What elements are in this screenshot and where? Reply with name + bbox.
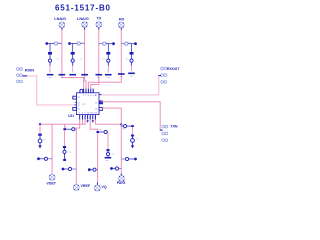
connector VQ stem bbox=[96, 183, 98, 186]
bead FB1 column bbox=[38, 124, 46, 148]
resistor R3 row bbox=[121, 125, 134, 131]
capacitor C7 tap bbox=[62, 167, 77, 170]
connector J1 circle bbox=[59, 22, 65, 30]
wire net TX bbox=[91, 29, 99, 88]
wire net RXOUT bbox=[102, 76, 161, 95]
svg-text:PA/G: PA/G bbox=[117, 181, 126, 185]
IC U1 body bbox=[76, 93, 99, 115]
connector VDET circle bbox=[49, 174, 55, 180]
capacitor C4 shunt bbox=[125, 44, 133, 72]
wire net LNA2 bbox=[85, 29, 86, 88]
junction dot VDET bbox=[39, 123, 41, 125]
svg-text:VDET: VDET bbox=[46, 181, 56, 185]
net bar GND b3a bbox=[96, 74, 103, 79]
connector J2 circle bbox=[82, 22, 88, 30]
wire net TXOUT bbox=[102, 108, 122, 126]
net bar GND b3b bbox=[105, 74, 112, 79]
IC U1 top pins bbox=[84, 89, 94, 93]
net bar GND b2a bbox=[69, 74, 76, 79]
wire net VREF bbox=[76, 120, 79, 185]
svg-text:LNA/G: LNA/G bbox=[54, 17, 66, 21]
connector VREF circle bbox=[73, 185, 79, 191]
svg-text:TXN: TXN bbox=[170, 125, 178, 129]
inductor L4 bbox=[121, 42, 137, 45]
wire net VDET drop bbox=[51, 124, 53, 174]
connector J4 circle bbox=[119, 22, 125, 30]
net bar GND b4b bbox=[128, 73, 135, 78]
svg-text:U1: U1 bbox=[82, 102, 86, 106]
wire net RXIN bbox=[23, 76, 75, 105]
wire net RX bbox=[88, 30, 121, 89]
wire net LNA1 bbox=[62, 30, 84, 89]
wire net TXN bbox=[102, 102, 163, 130]
net bar GND b4a bbox=[118, 73, 125, 78]
connector VQ circle bbox=[95, 185, 101, 191]
capacitor C2 shunt bbox=[71, 44, 83, 73]
svg-text:VQ: VQ bbox=[102, 185, 107, 189]
net bar GND b2b bbox=[81, 74, 88, 79]
IC U1 pin numbers bbox=[77, 95, 98, 115]
inductor L3 bbox=[99, 42, 115, 45]
inductor L2 bbox=[68, 42, 85, 45]
capacitor C11 tap bbox=[110, 167, 121, 170]
connector P1 RXIN bbox=[17, 68, 23, 83]
wire row1 riser bbox=[64, 124, 66, 128]
capacitor C5 tap bbox=[37, 157, 52, 160]
ground arrow pin VSS1 bbox=[86, 120, 88, 123]
wire net PA drop bbox=[120, 124, 122, 173]
svg-text:RXOUT: RXOUT bbox=[167, 67, 180, 71]
IC U1 right pads bbox=[99, 95, 103, 111]
junction dot PA bbox=[120, 123, 122, 125]
inductor L1 bbox=[45, 42, 62, 45]
net bar GND b1a bbox=[47, 74, 54, 79]
capacitor C6 shunt column bbox=[63, 130, 72, 161]
ground arrow pin VSS2 bbox=[92, 120, 94, 123]
svg-text:LNA/G: LNA/G bbox=[77, 17, 89, 21]
wire net VQ bbox=[90, 120, 97, 183]
connector P3 TXN bbox=[162, 125, 168, 141]
capacitor C1 shunt bbox=[48, 44, 60, 73]
resistor R2 row bbox=[97, 130, 109, 134]
IC U1 bottom pins bbox=[80, 115, 96, 120]
connector P2 RXOUT bbox=[161, 67, 167, 83]
capacitor C8 shunt column bbox=[105, 133, 112, 162]
svg-text:651-1517-B0: 651-1517-B0 bbox=[55, 3, 111, 12]
wire net PA feed bbox=[95, 120, 121, 125]
capacitor C9 tap bbox=[88, 168, 98, 171]
svg-text:U21: U21 bbox=[68, 114, 74, 118]
connector J3 circle bbox=[96, 22, 102, 30]
svg-text:RX: RX bbox=[119, 18, 125, 22]
svg-text:RXIN: RXIN bbox=[25, 68, 34, 72]
connector PA/G circle bbox=[119, 176, 125, 182]
svg-text:VREF: VREF bbox=[81, 184, 91, 188]
IC U1 pin1 arch bbox=[80, 89, 83, 92]
wire net VDET bus bbox=[40, 120, 85, 125]
svg-text:TX: TX bbox=[97, 16, 102, 20]
net bar GND b1b bbox=[59, 74, 66, 79]
capacitor C3 shunt bbox=[102, 44, 111, 73]
bead FB2 column bbox=[131, 127, 140, 148]
resistor R1 row bbox=[63, 127, 76, 131]
IC U1 left pads bbox=[73, 96, 77, 110]
capacitor C10 tap bbox=[110, 154, 137, 161]
